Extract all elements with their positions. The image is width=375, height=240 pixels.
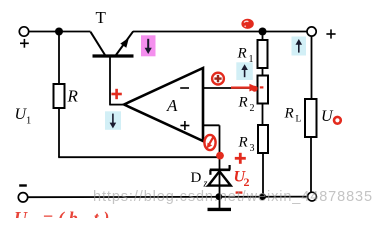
svg-text:1: 1 <box>249 54 254 65</box>
svg-text:R: R <box>237 46 247 62</box>
svg-text:2: 2 <box>250 103 255 114</box>
svg-text:L: L <box>296 115 302 125</box>
svg-text:R: R <box>67 87 79 106</box>
svg-text:R: R <box>238 135 248 151</box>
svg-text:D: D <box>191 170 202 186</box>
svg-text:U: U <box>321 108 334 125</box>
svg-text:T: T <box>96 8 107 27</box>
svg-text:1: 1 <box>26 116 31 127</box>
svg-text:2: 2 <box>244 175 250 189</box>
svg-text:A: A <box>166 96 178 115</box>
svg-text:https://blog.csdn.net/weixin_4: https://blog.csdn.net/weixin_44878835 <box>93 189 373 205</box>
svg-text:R: R <box>238 95 248 111</box>
svg-text:R: R <box>284 106 294 122</box>
svg-text:3: 3 <box>250 143 255 154</box>
svg-text:z: z <box>203 179 208 190</box>
svg-text:U₂=(b₂t): U₂=(b₂t) <box>14 208 114 218</box>
